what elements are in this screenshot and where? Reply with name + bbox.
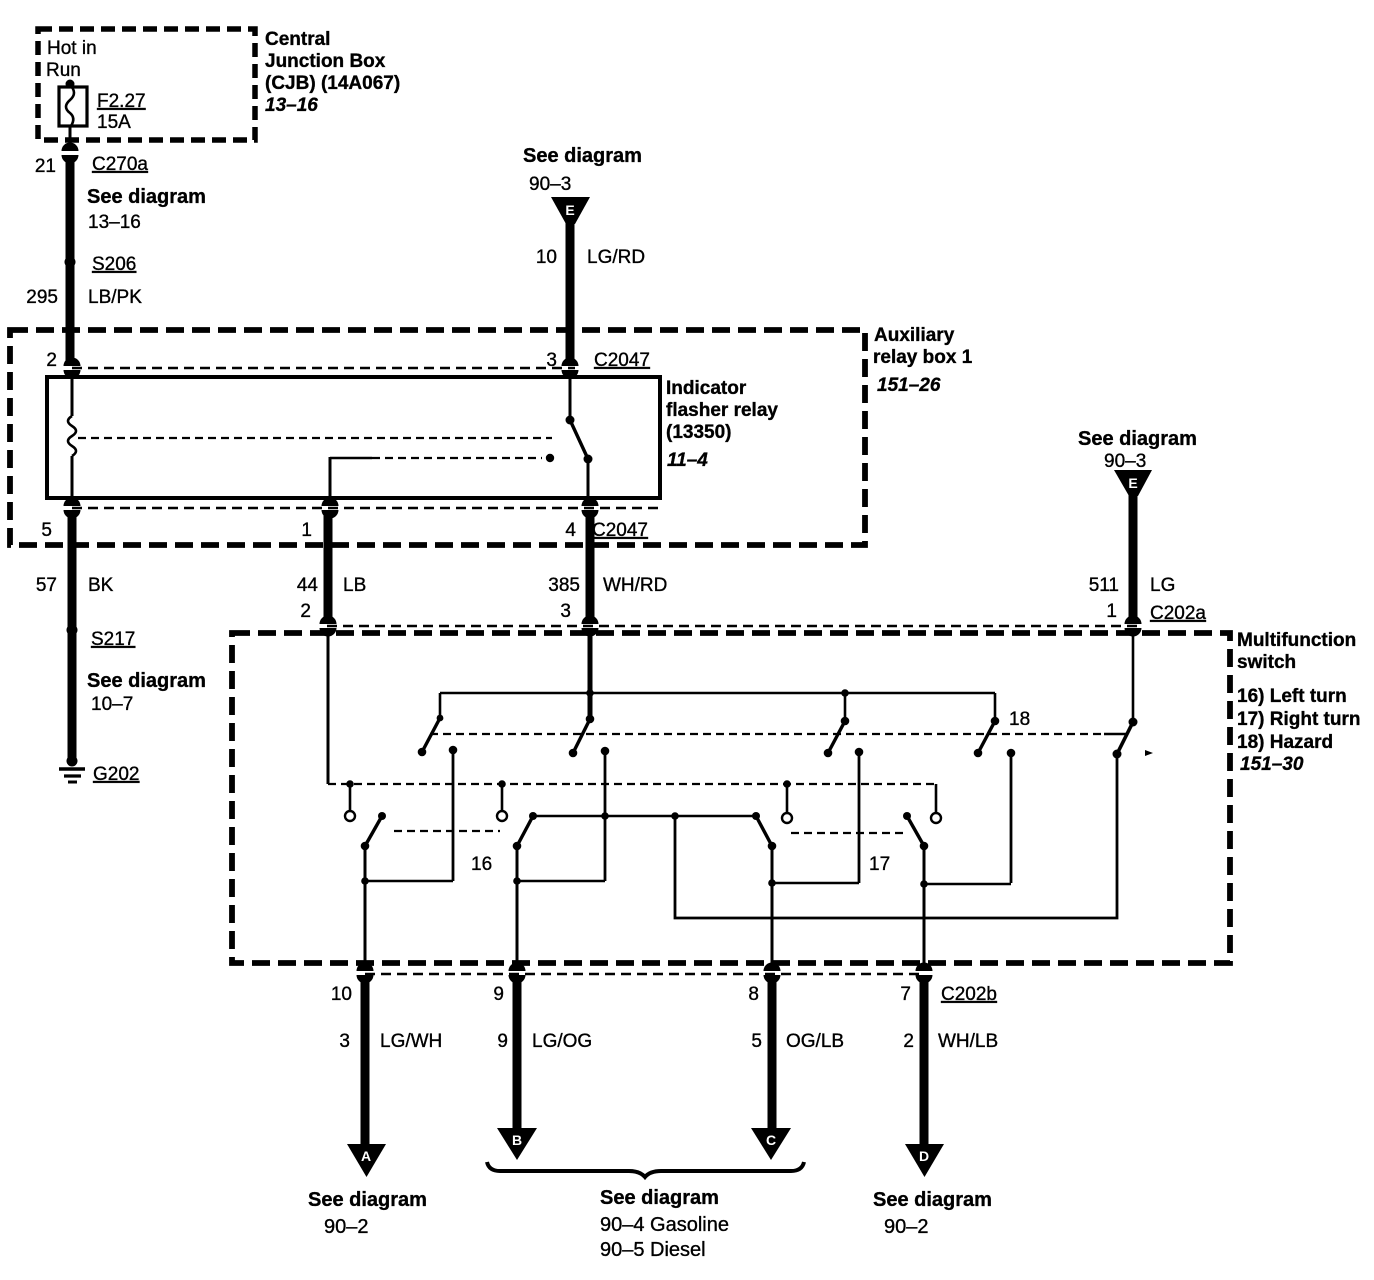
- connector pin 1 C202a: [1125, 616, 1142, 637]
- value label: F2.27 15A: [97, 91, 146, 133]
- svg-text:16) Left turn: 16) Left turn: [1237, 686, 1347, 707]
- wire 9 LG/OG (heavy): [513, 977, 522, 1130]
- wire label: 511 LG: [1089, 575, 1176, 596]
- node: feed junction 2: [841, 689, 849, 697]
- off-page connector B: [497, 1128, 537, 1160]
- svg-text:90–2: 90–2: [884, 1216, 929, 1238]
- svg-text:See diagram: See diagram: [873, 1189, 992, 1211]
- svg-text:Junction Box: Junction Box: [265, 51, 386, 72]
- svg-text:See diagram: See diagram: [87, 670, 206, 692]
- svg-text:S206: S206: [92, 254, 136, 275]
- connector row C2047 (bottom, dashed): [72, 507, 660, 509]
- svg-text:LG/WH: LG/WH: [380, 1031, 442, 1052]
- switch 17 arm 2: [903, 812, 1011, 965]
- svg-text:LG: LG: [1150, 575, 1175, 596]
- wire: LG feed inside switch: [1132, 633, 1135, 722]
- svg-text:C202a: C202a: [1150, 603, 1206, 624]
- svg-text:3: 3: [546, 350, 557, 371]
- svg-text:C2047: C2047: [594, 350, 650, 371]
- svg-text:LB: LB: [343, 575, 366, 596]
- svg-text:Multifunction: Multifunction: [1237, 630, 1356, 651]
- svg-text:511: 511: [1089, 575, 1119, 596]
- label: See diagram 10-7: [87, 670, 206, 715]
- wire label: 57 BK: [36, 575, 114, 596]
- brace under B and C: [487, 1162, 804, 1177]
- off-page connector D: [905, 1144, 944, 1177]
- svg-text:See diagram: See diagram: [600, 1187, 719, 1209]
- svg-text:LG/OG: LG/OG: [532, 1031, 592, 1052]
- svg-text:9: 9: [497, 1031, 508, 1052]
- svg-text:switch: switch: [1237, 652, 1296, 673]
- wire 44 LB (heavy): [324, 512, 333, 624]
- svg-text:11–4: 11–4: [667, 450, 708, 471]
- wire 511 LG (heavy): [1129, 495, 1138, 624]
- wire 3 LG/WH (heavy): [361, 977, 370, 1146]
- Multifunction switch dashed enclosure: [232, 633, 1230, 963]
- hazard contact arm b: [569, 715, 595, 758]
- svg-text:Indicator: Indicator: [666, 378, 747, 399]
- See diagram 90-3 (right): [1078, 428, 1197, 472]
- svg-text:BK: BK: [88, 575, 114, 596]
- svg-text:S217: S217: [91, 629, 135, 650]
- svg-text:4: 4: [565, 520, 576, 541]
- svg-text:90–5 Diesel: 90–5 Diesel: [600, 1239, 706, 1261]
- svg-text:3: 3: [339, 1031, 350, 1052]
- label: Central Junction Box (CJB) (14A067) 13-16: [265, 29, 400, 116]
- svg-text:C270a: C270a: [92, 154, 148, 175]
- svg-text:44: 44: [297, 575, 319, 596]
- switch 17 linkage (dashed): [791, 832, 908, 834]
- splice S206: [65, 254, 137, 275]
- svg-text:1: 1: [1106, 601, 1117, 622]
- ground G202: [59, 756, 139, 786]
- svg-text:Central: Central: [265, 29, 330, 50]
- connector row C2047 (top, dashed): [72, 367, 575, 369]
- svg-text:WH/LB: WH/LB: [938, 1031, 998, 1052]
- svg-text:90–4 Gasoline: 90–4 Gasoline: [600, 1214, 729, 1236]
- svg-text:151–26: 151–26: [877, 375, 941, 396]
- svg-text:151–30: 151–30: [1240, 754, 1304, 775]
- label: See diagram 13-16: [87, 186, 206, 233]
- wire 57 BK (heavy): [68, 512, 77, 761]
- off-page connector E (right): [1114, 470, 1152, 496]
- Indicator flasher relay (13350) outline: [47, 377, 660, 498]
- svg-text:relay box 1: relay box 1: [873, 347, 973, 368]
- connector pin 10 C202b: [357, 963, 374, 984]
- Auxiliary relay box 1 dashed enclosure: [10, 330, 865, 545]
- wire label: 44 LB: [297, 575, 366, 596]
- svg-text:9: 9: [493, 984, 504, 1005]
- svg-text:See diagram: See diagram: [1078, 428, 1197, 450]
- svg-text:385: 385: [548, 575, 580, 596]
- wire: hazard feed bus: [440, 692, 995, 695]
- node: common link junctions: [601, 812, 609, 820]
- wire label: 5 OG/LB: [751, 1031, 844, 1052]
- svg-text:17: 17: [869, 854, 890, 875]
- svg-text:LB/PK: LB/PK: [88, 287, 142, 308]
- fixed contact stub 3: [782, 780, 792, 823]
- pin label 7 / C202b: [900, 984, 997, 1005]
- svg-text:LG/RD: LG/RD: [587, 247, 645, 268]
- svg-text:E: E: [565, 202, 574, 218]
- svg-text:B: B: [512, 1132, 522, 1148]
- svg-text:13–16: 13–16: [88, 212, 141, 233]
- svg-text:90–2: 90–2: [324, 1216, 369, 1238]
- wire 385 WH/RD (heavy): [586, 512, 595, 624]
- connector pin 5 C2047: [64, 498, 81, 519]
- hazard contact arm d: [974, 693, 1000, 757]
- wire: right-turn lamp contact drop 1: [855, 748, 864, 883]
- label: Multifunction switch 16) Left turn 17) Right turn 18) Hazard 151-30: [1237, 630, 1361, 775]
- off-page connector A: [347, 1144, 386, 1177]
- svg-text:See diagram: See diagram: [523, 145, 642, 167]
- svg-text:E: E: [1128, 475, 1137, 491]
- svg-text:C2047: C2047: [592, 520, 648, 541]
- hazard contact arm a: [418, 693, 444, 756]
- wire: LB feed inside switch: [327, 633, 330, 784]
- svg-text:5: 5: [41, 520, 52, 541]
- wire 10 LG/RD (heavy): [566, 223, 575, 366]
- svg-text:G202: G202: [93, 764, 139, 785]
- switch 16 linkage (dashed): [394, 830, 500, 832]
- pin 21 / label C270a: [35, 154, 149, 177]
- svg-text:A: A: [361, 1148, 371, 1164]
- wire 2 WH/LB (heavy): [920, 977, 929, 1146]
- svg-text:C202b: C202b: [941, 984, 997, 1005]
- fuse F2.27 15A: [59, 85, 87, 126]
- svg-text:Hot in: Hot in: [47, 38, 97, 59]
- svg-text:10: 10: [536, 247, 557, 268]
- svg-text:2: 2: [903, 1031, 914, 1052]
- wire: fuse to C270a: [69, 126, 72, 149]
- hazard switch arm (18): [1113, 718, 1154, 759]
- pin label 4 / C2047: [565, 520, 648, 541]
- connector pin 2 C202a: [320, 616, 337, 637]
- See diagram 90-3 (top middle): [523, 145, 642, 195]
- relay contact feed from pin 1: [330, 454, 554, 498]
- svg-text:(CJB) (14A067): (CJB) (14A067): [265, 73, 400, 94]
- svg-text:Auxiliary: Auxiliary: [874, 325, 955, 346]
- connector C270a (in-line): [62, 143, 79, 164]
- off-page connector E (top middle): [551, 197, 590, 224]
- connector pin 2 C2047: [64, 358, 81, 379]
- svg-text:5: 5: [751, 1031, 762, 1052]
- connector row C202a (dashed): [327, 625, 1140, 627]
- label: Indicator flasher relay (13350) 11-4: [666, 378, 778, 471]
- relay switch contact: [566, 377, 593, 498]
- svg-text:10: 10: [331, 984, 352, 1005]
- svg-text:90–3: 90–3: [1104, 451, 1146, 472]
- wire: flasher feed row (dashed): [328, 783, 936, 785]
- wire: right-turn lamp contact drop 2: [1007, 749, 1016, 883]
- svg-text:3: 3: [560, 601, 571, 622]
- switch 17 arm 1: [752, 812, 859, 965]
- wire label: 10 LG/RD: [536, 247, 645, 268]
- svg-text:(13350): (13350): [666, 422, 732, 443]
- svg-text:21: 21: [35, 156, 56, 177]
- off-page connector C: [751, 1128, 791, 1160]
- svg-text:C: C: [766, 1132, 776, 1148]
- node: fuse feed junction: [66, 80, 75, 89]
- svg-text:2: 2: [46, 350, 57, 371]
- svg-text:295: 295: [26, 287, 58, 308]
- svg-text:15A: 15A: [97, 112, 131, 133]
- label: See diagram 90-2 (right): [873, 1189, 992, 1238]
- svg-text:18: 18: [1009, 709, 1030, 730]
- svg-text:18) Hazard: 18) Hazard: [1237, 732, 1333, 753]
- pin label 1 / C202a: [1106, 601, 1206, 624]
- fixed contact stub 2: [497, 780, 507, 821]
- connector pin 8 C202b: [764, 963, 781, 984]
- splice S217: [67, 625, 136, 651]
- wire: hazard return loop: [675, 754, 1117, 918]
- hazard contact arm c: [824, 693, 850, 757]
- wire label: 2 WH/LB: [903, 1031, 998, 1052]
- connector pin 9 C202b: [509, 963, 526, 984]
- hazard linkage (dashed): [430, 733, 1126, 735]
- wire label: 3 LG/WH: [339, 1031, 442, 1052]
- label: Auxiliary relay box 1 151-26: [873, 325, 973, 396]
- svg-text:7: 7: [900, 984, 911, 1005]
- svg-text:See diagram: See diagram: [87, 186, 206, 208]
- wire: left-turn lamp contact drop 1: [449, 746, 458, 881]
- svg-text:See diagram: See diagram: [308, 1189, 427, 1211]
- switch 16 arm 1: [361, 812, 453, 965]
- pin label 3 / C2047: [546, 350, 650, 371]
- svg-text:2: 2: [300, 601, 311, 622]
- svg-text:D: D: [919, 1148, 929, 1164]
- relay armature linkage (dashed): [78, 437, 552, 439]
- svg-text:10–7: 10–7: [91, 694, 133, 715]
- svg-text:13–16: 13–16: [265, 95, 318, 116]
- label: See diagram 90-2 (left): [308, 1189, 427, 1238]
- node: feed junction: [586, 689, 594, 697]
- fixed contact stub 4: [931, 784, 941, 823]
- wire: left-turn lamp contact drop 2: [601, 747, 610, 881]
- wire label: 385 WH/RD: [548, 575, 667, 596]
- switch 16 arm 2: [513, 812, 605, 965]
- wire: WH/RD feed inside switch: [588, 633, 593, 719]
- svg-text:16: 16: [471, 854, 492, 875]
- fixed contact stub 1: [345, 780, 355, 821]
- connector pin 4 C2047: [582, 498, 599, 519]
- wire: turn signal common link: [533, 815, 756, 817]
- svg-text:Run: Run: [46, 60, 81, 81]
- svg-text:F2.27: F2.27: [97, 91, 146, 112]
- relay coil: [68, 377, 76, 498]
- wire label: 295 LB/PK: [26, 287, 142, 308]
- connector pin 7 C202b: [916, 963, 933, 984]
- wire 5 OG/LB (heavy): [768, 977, 777, 1130]
- label: See diagram 90-4 Gasoline 90-5 Diesel (middle): [600, 1187, 729, 1261]
- wire label: 9 LG/OG: [497, 1031, 592, 1052]
- svg-text:1: 1: [301, 520, 312, 541]
- Central Junction Box (CJB) dashed enclosure: [38, 29, 255, 140]
- svg-text:57: 57: [36, 575, 57, 596]
- svg-text:17) Right turn: 17) Right turn: [1237, 709, 1361, 730]
- svg-text:WH/RD: WH/RD: [603, 575, 667, 596]
- connector pin 3 C2047: [562, 358, 579, 379]
- svg-text:OG/LB: OG/LB: [786, 1031, 844, 1052]
- wire 295 LB/PK (heavy): [66, 158, 75, 366]
- connector pin 1 C2047: [322, 498, 339, 519]
- label: Hot in Run: [46, 38, 97, 81]
- connector row C202b (dashed): [365, 973, 924, 975]
- svg-text:flasher relay: flasher relay: [666, 400, 778, 421]
- svg-text:90–3: 90–3: [529, 174, 571, 195]
- connector pin 3 C202a: [582, 616, 599, 637]
- svg-text:8: 8: [748, 984, 759, 1005]
